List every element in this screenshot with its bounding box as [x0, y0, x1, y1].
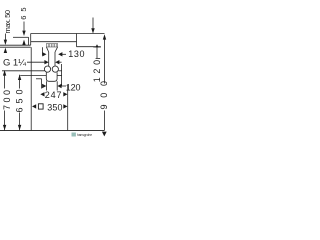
arrow 650 up — [18, 75, 21, 80]
arrow G right — [44, 60, 48, 64]
arrow 350 left — [32, 104, 36, 108]
svg-text:max. 50: max. 50 — [3, 10, 12, 34]
arrow G left — [55, 60, 59, 64]
arrow 65 up — [22, 40, 25, 45]
drain pipe — [48, 52, 50, 66]
basin bottom line — [31, 41, 77, 43]
svg-text:130: 130 — [68, 49, 84, 59]
svg-text:G 1¼: G 1¼ — [3, 58, 27, 69]
arrow max50 down — [4, 40, 7, 45]
arrow 130 left — [58, 52, 62, 56]
arrow 900 down below floor — [102, 132, 107, 137]
svg-text:900: 900 — [99, 81, 109, 110]
arrow 700 down — [3, 125, 6, 130]
120 row tail — [61, 85, 66, 87]
basin inner lip line — [13, 36, 29, 38]
square symbol for 350 — [38, 104, 43, 109]
dim 120v ticks and line — [93, 46, 101, 48]
svg-text:120: 120 — [92, 60, 102, 83]
wall pipe bottom line — [20, 74, 46, 76]
floor line — [0, 130, 105, 132]
arrow 247 left — [40, 92, 44, 96]
basin right edge — [76, 34, 78, 47]
trap nut circle right — [52, 66, 58, 72]
drain nut taper — [47, 47, 49, 52]
arrow 247 right — [63, 92, 67, 96]
130 leader — [42, 47, 44, 55]
dim 900 line — [104, 39, 106, 84]
arrow 130 right — [42, 52, 46, 56]
arrow x93 down — [91, 28, 94, 33]
trap cup — [46, 72, 57, 81]
basin inner lip vertical — [28, 37, 30, 45]
arrow 350 right — [63, 104, 67, 108]
svg-text:247: 247 — [45, 90, 62, 100]
basin top rim line (extended right) — [31, 33, 105, 35]
right ext line for 247/350 — [67, 85, 69, 130]
right counter line — [77, 46, 101, 48]
hansgrohe logo watermark — [72, 133, 93, 138]
svg-text:350: 350 — [47, 102, 62, 112]
svg-text:650: 650 — [14, 90, 24, 113]
dim max50 line — [4, 34, 6, 41]
dim right top line x93 — [92, 18, 94, 29]
arrow 120 left — [57, 84, 61, 88]
trap nut circle left — [44, 66, 50, 72]
step leader — [36, 78, 42, 80]
dim 700 line — [4, 70, 6, 88]
basin left edge — [30, 34, 32, 46]
arrow 700 up — [3, 70, 6, 75]
arrow 65 down — [22, 31, 25, 36]
dim 650 line — [19, 75, 21, 89]
wall pipe top line — [2, 70, 45, 72]
countertop slab bottom line — [0, 46, 31, 48]
G dim leader — [27, 61, 45, 63]
svg-text:120: 120 — [66, 82, 81, 92]
vertical ext line right of trap — [61, 64, 63, 86]
arrow 120 right — [42, 84, 46, 88]
dim 65 line — [23, 22, 25, 31]
svg-text:700: 700 — [2, 90, 12, 110]
drain flange hatched block — [46, 44, 58, 47]
arrow max50 up below slab — [4, 48, 7, 53]
arrow 120v up — [95, 44, 98, 47]
arrow 650 down — [18, 125, 21, 130]
wall / pedestal vertical line — [30, 47, 32, 130]
arrow 900 up — [103, 34, 106, 39]
svg-text:hansgrohe: hansgrohe — [77, 133, 92, 137]
countertop slab top line — [0, 44, 31, 46]
trap extension lines below — [45, 81, 47, 90]
